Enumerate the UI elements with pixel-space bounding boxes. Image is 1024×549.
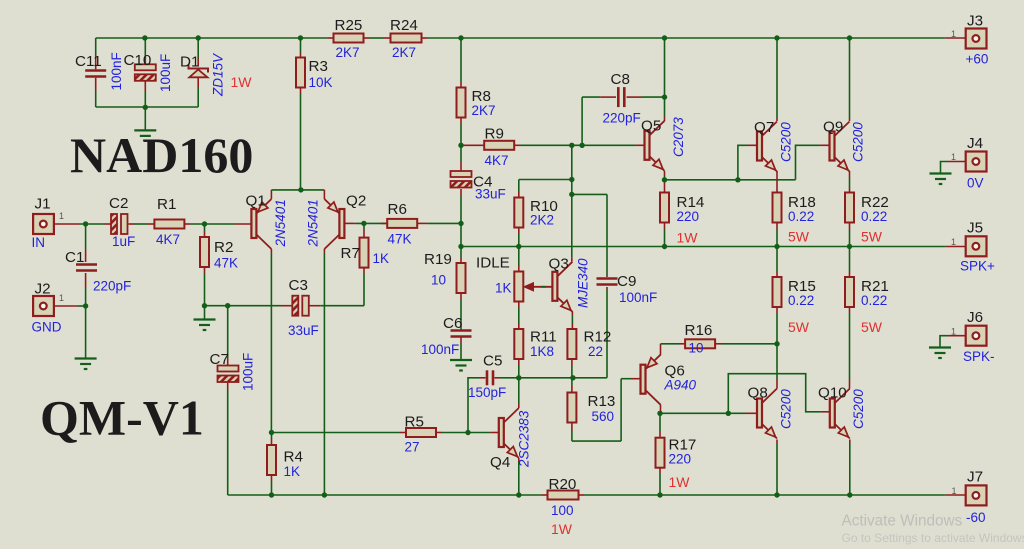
wire Q8 emitter down <box>776 440 778 496</box>
svg-text:C2: C2 <box>109 195 128 212</box>
wire C9 bottom node <box>519 377 607 379</box>
svg-text:4K7: 4K7 <box>156 232 180 247</box>
svg-text:C10: C10 <box>124 52 152 69</box>
svg-text:220pF: 220pF <box>603 111 641 126</box>
svg-text:C6: C6 <box>443 315 462 332</box>
wire R10 top <box>519 180 572 198</box>
svg-text:1: 1 <box>952 486 957 496</box>
transistor Q7 C5200 <box>754 119 794 172</box>
svg-text:2K7: 2K7 <box>336 45 360 60</box>
wire R22 bottom <box>849 223 851 247</box>
capacitor C11 <box>75 52 124 90</box>
svg-text:R13: R13 <box>588 393 616 410</box>
svg-text:R11: R11 <box>530 329 557 346</box>
svg-text:4K7: 4K7 <box>485 153 509 168</box>
svg-text:J6: J6 <box>967 309 983 326</box>
wire J2 to ground <box>54 306 86 359</box>
svg-text:47K: 47K <box>388 232 412 247</box>
resistor R24 2K7 <box>384 17 428 60</box>
capacitor C1 220pF <box>65 249 131 294</box>
svg-text:10: 10 <box>431 273 446 288</box>
svg-text:100uF: 100uF <box>241 353 256 391</box>
title NAD160 <box>70 127 253 183</box>
svg-text:MJE340: MJE340 <box>576 258 591 308</box>
svg-text:2N5401: 2N5401 <box>273 199 288 247</box>
svg-text:5W: 5W <box>861 319 883 335</box>
wire J4 lead to ground <box>941 162 966 174</box>
svg-text:C5200: C5200 <box>851 122 866 162</box>
wire R12 bottom <box>571 359 573 378</box>
wire R16 connection <box>661 344 778 355</box>
svg-text:1: 1 <box>951 152 956 162</box>
connector J5 SPK+ <box>951 220 995 274</box>
transistor Q9 C5200 <box>823 119 866 172</box>
wire Q6 collector to Q8 base <box>661 405 758 414</box>
svg-text:C5: C5 <box>483 353 502 370</box>
svg-text:2K2: 2K2 <box>530 213 554 228</box>
capacitor C9 100nF <box>597 273 658 305</box>
ground below C10 <box>134 107 156 141</box>
svg-text:R19: R19 <box>424 251 452 268</box>
svg-text:C2073: C2073 <box>671 117 686 157</box>
wire Q1 collector down <box>270 249 272 433</box>
resistor R20 100 1W <box>548 476 579 537</box>
connector J2 <box>32 281 65 335</box>
svg-text:C9: C9 <box>617 273 636 290</box>
capacitor C4 33uF <box>451 171 506 202</box>
svg-text:2K7: 2K7 <box>472 103 496 118</box>
svg-text:J5: J5 <box>967 220 983 237</box>
svg-text:R2: R2 <box>214 239 233 256</box>
svg-text:150pF: 150pF <box>468 385 506 400</box>
svg-text:J2: J2 <box>35 281 51 298</box>
svg-text:ZD15V: ZD15V <box>211 52 226 97</box>
wire R3 column <box>300 38 302 190</box>
svg-text:Q5: Q5 <box>641 118 661 135</box>
svg-text:R4: R4 <box>284 449 303 466</box>
wire Q5 collector column <box>664 38 666 121</box>
resistor R8 2K7 <box>457 88 496 119</box>
wire R21 to Q10 collector <box>849 379 851 389</box>
watermark activate windows <box>842 513 1024 546</box>
svg-text:1K: 1K <box>284 464 301 479</box>
svg-text:J7: J7 <box>967 469 983 486</box>
wire R15 to Q8 collector <box>776 344 778 389</box>
svg-text:0.22: 0.22 <box>788 293 814 308</box>
svg-text:1uF: 1uF <box>112 234 135 249</box>
svg-text:D1: D1 <box>180 54 199 71</box>
potentiometer IDLE 1K <box>476 255 553 302</box>
svg-text:220: 220 <box>669 452 692 467</box>
svg-text:IN: IN <box>32 235 46 250</box>
wire R15 segment <box>776 247 778 344</box>
ground below J2 <box>75 359 97 370</box>
wire top supply rail <box>96 37 946 39</box>
wire R17 column <box>659 413 661 495</box>
wire Q9 collector column <box>849 38 851 121</box>
transistor Q4 2SC2383 <box>490 408 532 471</box>
svg-text:Q4: Q4 <box>490 454 510 471</box>
wire Q3 emitter to R12 <box>571 312 573 330</box>
wire R2 column <box>204 224 206 320</box>
svg-text:J4: J4 <box>967 135 983 152</box>
resistor R16 10 <box>685 322 716 356</box>
resistor R21 0.22 5W <box>845 277 889 335</box>
resistor R6 47K <box>387 201 417 247</box>
wire R8 C4 column <box>460 38 462 247</box>
wire Q7 emitter to R18 <box>776 171 778 193</box>
resistor R2 47K <box>200 237 238 271</box>
svg-text:R7: R7 <box>341 245 360 262</box>
svg-text:R9: R9 <box>485 126 504 143</box>
svg-text:J1: J1 <box>35 196 51 213</box>
svg-text:100uF: 100uF <box>158 54 173 92</box>
capacitor C10 <box>124 52 174 92</box>
svg-text:Q1: Q1 <box>246 193 266 210</box>
svg-text:NAD160: NAD160 <box>70 127 253 183</box>
wire J5 lead <box>946 246 966 248</box>
resistor R14 220 1W <box>660 193 704 246</box>
svg-text:0.22: 0.22 <box>861 293 887 308</box>
svg-text:C11: C11 <box>75 53 102 70</box>
svg-text:220: 220 <box>677 209 700 224</box>
svg-text:0.22: 0.22 <box>788 209 814 224</box>
connector J4 0V <box>951 135 987 191</box>
svg-text:C5200: C5200 <box>851 389 866 429</box>
ground below R2 <box>194 320 216 331</box>
svg-text:560: 560 <box>592 409 615 424</box>
svg-text:10: 10 <box>689 341 704 356</box>
wire R7 top <box>363 223 365 237</box>
wire C11 branch <box>95 38 97 107</box>
wire J6 lead to ground <box>940 336 966 348</box>
svg-text:1: 1 <box>59 293 64 303</box>
wire R19 C6 column <box>460 247 462 361</box>
wire Q9 emitter to R22 <box>849 171 851 193</box>
svg-text:2K7: 2K7 <box>392 45 416 60</box>
svg-text:1W: 1W <box>551 521 573 537</box>
wire pot bottom to R11 <box>518 302 520 330</box>
wire Q5 base node down to Q3 collector <box>571 145 573 261</box>
svg-text:R25: R25 <box>335 17 363 34</box>
svg-text:22: 22 <box>588 344 603 359</box>
svg-text:Go to Settings to activate Win: Go to Settings to activate Windows. <box>842 531 1024 545</box>
svg-text:-60: -60 <box>966 510 986 525</box>
wire Q4 emitter <box>518 458 520 495</box>
svg-text:1: 1 <box>951 29 956 39</box>
svg-text:100nF: 100nF <box>619 290 657 305</box>
wire J1 to C2 to Q1 base <box>54 223 252 225</box>
svg-text:R24: R24 <box>390 17 418 34</box>
svg-text:R16: R16 <box>685 322 713 339</box>
wire R4 column <box>271 433 273 496</box>
wire bottom rail <box>542 494 946 496</box>
resistor R19 10 <box>424 251 466 293</box>
resistor R11 1K8 <box>514 329 556 360</box>
resistor R9 4K7 <box>484 126 514 169</box>
connector J1 <box>32 196 65 251</box>
svg-text:R3: R3 <box>309 58 328 75</box>
ground at J4 <box>930 174 952 185</box>
connector J3 +60 <box>951 13 988 67</box>
wire Q10 emitter down <box>849 440 851 496</box>
resistor R3 10K <box>296 58 333 91</box>
svg-text:0.22: 0.22 <box>861 209 887 224</box>
svg-text:10K: 10K <box>309 75 333 90</box>
resistor R15 0.22 5W <box>773 277 816 335</box>
svg-text:Q9: Q9 <box>823 119 843 136</box>
svg-text:Q2: Q2 <box>346 193 366 210</box>
wire C8 loop <box>582 97 664 145</box>
svg-text:QM-V1: QM-V1 <box>40 390 204 446</box>
svg-text:5W: 5W <box>861 229 883 245</box>
wire pot top <box>518 247 520 272</box>
svg-text:C5200: C5200 <box>779 122 794 162</box>
diode D1 zener ZD15V <box>180 52 252 97</box>
wire J3 lead <box>946 37 966 39</box>
wire C1 column <box>85 224 87 306</box>
svg-text:IDLE: IDLE <box>476 255 510 272</box>
svg-text:1: 1 <box>951 237 956 247</box>
svg-text:J3: J3 <box>967 13 983 30</box>
wire R14 column <box>664 180 666 247</box>
svg-text:Q7: Q7 <box>754 119 774 136</box>
svg-text:SPK-: SPK- <box>963 349 995 364</box>
svg-text:1: 1 <box>951 327 956 337</box>
wire C5 right lead <box>495 377 519 379</box>
svg-text:R6: R6 <box>388 201 407 218</box>
wire bottom of C11/C10/D1 <box>96 106 199 108</box>
transistor Q6 A940 <box>641 355 697 405</box>
wire C5 left lead <box>468 378 486 433</box>
wire R11 bottom <box>518 359 520 378</box>
connector J7 -60 <box>952 469 987 526</box>
resistor R12 22 <box>567 329 611 360</box>
wire J7 lead <box>946 494 966 496</box>
wire C7 column <box>228 306 542 495</box>
svg-text:33uF: 33uF <box>288 323 319 338</box>
wire R2/C7/C3 node <box>205 268 365 306</box>
svg-text:2N5401: 2N5401 <box>306 199 321 247</box>
resistor R13 560 <box>567 393 615 425</box>
svg-text:5W: 5W <box>788 229 810 245</box>
svg-text:C8: C8 <box>611 71 630 88</box>
resistor R1 4K7 <box>154 196 184 247</box>
resistor R5 27 <box>405 414 437 455</box>
svg-text:R5: R5 <box>405 414 424 431</box>
svg-text:1: 1 <box>59 211 64 221</box>
svg-text:27: 27 <box>405 440 420 455</box>
svg-text:220pF: 220pF <box>93 279 131 294</box>
svg-text:SPK+: SPK+ <box>960 259 995 274</box>
svg-text:1K: 1K <box>495 281 512 296</box>
svg-text:47K: 47K <box>214 256 238 271</box>
wire Q7 base <box>738 145 757 180</box>
resistor R10 2K2 <box>514 198 558 228</box>
svg-text:100nF: 100nF <box>109 52 124 90</box>
svg-text:1W: 1W <box>677 230 699 246</box>
svg-text:Q3: Q3 <box>549 256 569 273</box>
transistor Q1 2N5401 <box>246 193 289 250</box>
wire R18 bottom <box>776 223 778 247</box>
ground below C6 <box>450 360 472 371</box>
svg-text:1W: 1W <box>231 74 253 90</box>
svg-text:Activate Windows: Activate Windows <box>842 513 963 530</box>
resistor R17 220 1W <box>656 437 697 491</box>
transistor Q3 MJE340 <box>549 256 591 312</box>
wire D1 branch <box>197 38 199 107</box>
wire Q7 collector column <box>776 38 778 121</box>
resistor R4 1K <box>267 445 303 479</box>
transistor Q5 C2073 <box>641 117 686 171</box>
transistor Q8 C5200 <box>748 385 794 439</box>
svg-text:A940: A940 <box>664 378 697 393</box>
svg-text:C3: C3 <box>289 277 308 294</box>
svg-text:1K: 1K <box>373 251 390 266</box>
wire R13 bottom to Q6 base <box>572 379 641 441</box>
wire R21 segment <box>849 247 851 380</box>
svg-text:2SC2383: 2SC2383 <box>517 410 532 468</box>
svg-text:C5200: C5200 <box>779 389 794 429</box>
wire C9 top branch <box>572 194 607 377</box>
svg-text:5W: 5W <box>788 319 810 335</box>
svg-text:C1: C1 <box>65 249 84 266</box>
svg-text:1K8: 1K8 <box>530 344 554 359</box>
resistor R25 2K7 <box>328 17 370 60</box>
svg-text:1W: 1W <box>669 474 691 490</box>
resistor R7 1K <box>341 238 390 268</box>
connector J6 SPK- <box>951 309 995 364</box>
svg-text:+60: +60 <box>966 52 989 67</box>
svg-text:R12: R12 <box>584 329 612 346</box>
title QM-V1 <box>40 390 204 446</box>
wire C10 branch <box>144 38 146 107</box>
wire Q5 emitter to Q7 Q9 bases <box>665 145 830 180</box>
svg-text:33uF: 33uF <box>475 187 506 202</box>
svg-text:R20: R20 <box>549 476 577 493</box>
wire R9 to Q5 base <box>461 144 645 146</box>
capacitor C7 100uF <box>210 351 256 391</box>
capacitor C6 100nF <box>421 315 472 357</box>
wire Q8 Q10 base tie <box>728 374 830 414</box>
resistor R22 0.22 5W <box>845 193 889 245</box>
wire R5 line Q4 base <box>272 432 500 434</box>
wire Q1 Q2 emitters <box>271 190 324 199</box>
capacitor C2 1uF <box>109 195 135 249</box>
svg-text:GND: GND <box>32 320 62 335</box>
wire output rail SPK+ <box>461 246 946 248</box>
ground at J6 <box>929 348 951 359</box>
resistor R18 0.22 5W <box>773 193 816 245</box>
svg-text:Q8: Q8 <box>748 385 768 402</box>
capacitor C5 150pF <box>468 353 506 401</box>
capacitor C8 220pF <box>603 71 641 126</box>
svg-text:100nF: 100nF <box>421 342 459 357</box>
wire Q2 collector down <box>323 249 325 495</box>
capacitor C3 33uF <box>288 277 319 338</box>
svg-text:Q10: Q10 <box>818 385 847 402</box>
wire Q4 collector <box>518 378 520 408</box>
wire R13 top <box>571 378 573 393</box>
wire Q2 base to R6 <box>344 222 461 224</box>
svg-text:C7: C7 <box>210 351 229 368</box>
svg-text:0V: 0V <box>967 176 984 191</box>
wire R10 bottom <box>518 228 520 247</box>
transistor Q2 2N5401 <box>306 193 367 250</box>
svg-text:100: 100 <box>551 503 574 518</box>
svg-text:R1: R1 <box>157 196 176 213</box>
transistor Q10 C5200 <box>818 385 866 439</box>
